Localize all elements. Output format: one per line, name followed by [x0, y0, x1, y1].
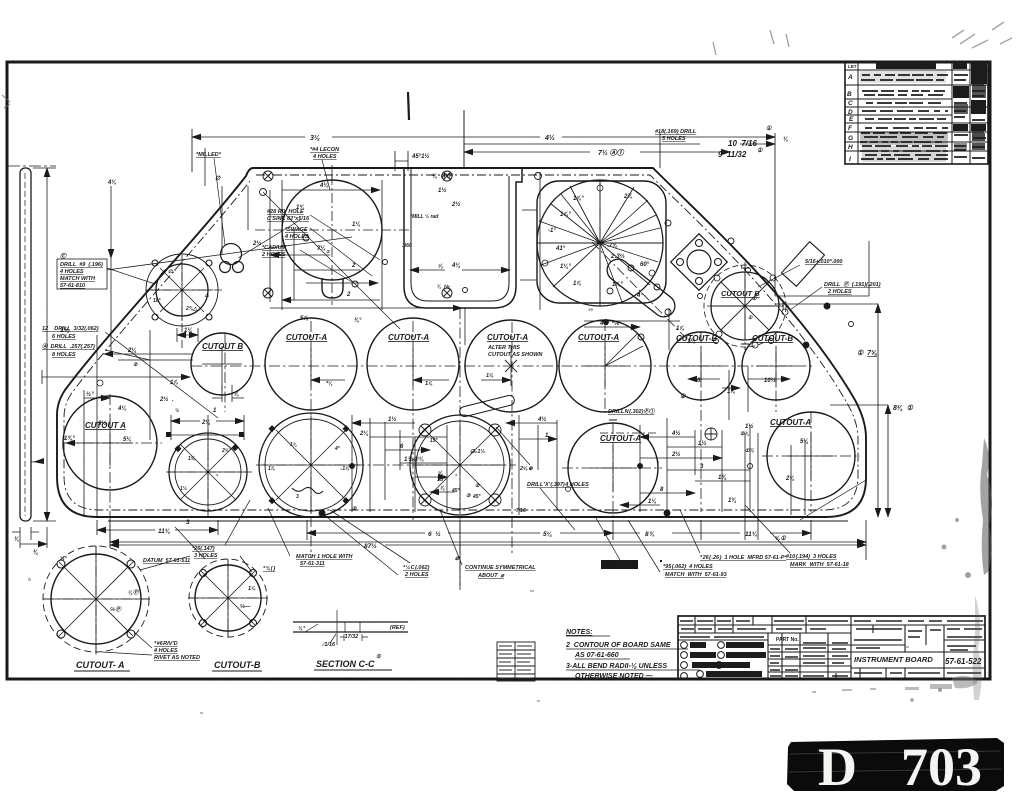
middle row: cutout A 2 — [367, 318, 459, 410]
middle row: cutout B 3 — [742, 332, 810, 400]
mid dim cluster between instrument circles 2 and 3 — [352, 415, 455, 512]
extra ring circles cutout B upper — [714, 275, 788, 348]
title block header scribbles — [680, 621, 983, 676]
U-shaped cutout — [404, 168, 522, 308]
centerline tick marks on circles — [51, 180, 855, 644]
slanted slot cutout — [603, 255, 680, 322]
middle row: cutout B 2 — [667, 332, 735, 400]
bottom row: instrument circle 1 — [169, 433, 247, 511]
dims inside right cutout A — [745, 433, 805, 540]
leader lines to below-panel labels — [175, 500, 790, 575]
dim below middle cutout B — [212, 385, 244, 402]
section C-C annotations — [298, 625, 405, 660]
cutout B circle with X spokes (upper right) — [704, 265, 786, 347]
upper-left leader labels — [196, 147, 340, 258]
small parts table bottom middle — [497, 642, 535, 681]
notes block — [565, 629, 700, 680]
detail circle labels bottom left — [60, 555, 256, 661]
left horizontal dim to diagonal — [42, 370, 190, 386]
dims small instrument upper left — [104, 148, 248, 360]
left edge view strip — [20, 168, 31, 521]
left side labels — [42, 252, 103, 358]
middle row: cutout A 1 — [265, 318, 357, 410]
scan smudges right border — [910, 438, 992, 702]
middle row: cutout B — [191, 333, 253, 395]
detail cutout B (bottom left) — [189, 559, 267, 637]
slot centerline — [592, 242, 692, 344]
panel outline (instrument board) — [57, 168, 866, 517]
keyhole datum cross marks — [263, 171, 452, 298]
small keyhole cutout — [220, 244, 244, 273]
small diamond cutout cluster — [671, 234, 728, 291]
right side vertical dims — [110, 304, 888, 560]
revision table top right — [845, 62, 988, 164]
keyhole cutout (large circle with slot) — [282, 180, 382, 298]
dims above instrument circle 1 — [169, 415, 244, 440]
left strip bottom ticks — [12, 527, 47, 548]
below-panel dimension chain — [97, 520, 866, 586]
bottom row: cutout A mid — [568, 423, 658, 513]
title block texts — [776, 637, 982, 666]
rivet hole dots — [260, 173, 854, 349]
U-shaped cutout inner line — [411, 168, 509, 301]
u channel centerline — [463, 110, 465, 168]
scan dots above D703 — [28, 578, 978, 714]
middle row: cutout A 4 — [559, 320, 651, 412]
top dimension lines — [8, 92, 775, 296]
extra fan circle spokes — [539, 185, 660, 302]
detail cutout A (bottom left) — [43, 546, 149, 652]
dim cluster right of instrument circle 3 — [496, 415, 575, 530]
strip side arrow — [33, 458, 44, 464]
title block stamps left section — [690, 642, 766, 677]
below-panel leader labels — [143, 546, 850, 579]
section C-C label — [74, 659, 392, 671]
dim cluster between bottom cutout circles (right) — [600, 418, 750, 512]
bottom edge double line — [108, 520, 848, 522]
middle row: cutout A 3 (altered) — [459, 320, 557, 418]
long centerlines dash-dot — [43, 308, 860, 655]
dims between middle row B circles — [680, 377, 776, 400]
circled cross marks on instrument circle 3 — [419, 424, 501, 506]
bottom row: cutout A big left — [63, 396, 157, 490]
title block bottom right — [678, 616, 985, 679]
scan marks top right corner — [2, 22, 1012, 108]
left inner vertical dims — [66, 330, 150, 517]
panel margin dash-dot line — [64, 175, 858, 510]
edge strip dimension line — [46, 168, 48, 521]
cutout labels on circles — [85, 289, 811, 443]
sheet border frame — [7, 62, 990, 679]
slanted shim plate on diagonal edge — [782, 242, 825, 287]
dims around big keyhole circle — [255, 165, 540, 345]
bottom row: instrument circle 3 — [410, 415, 510, 515]
revision table scribble rows — [860, 75, 986, 159]
fan circle (compass rose) top right — [537, 180, 666, 306]
wavy scribbles inside circle 19 — [292, 487, 323, 493]
section C-C drawing — [293, 610, 408, 645]
small instrument circle upper left with spokes — [146, 254, 218, 326]
D703 stamp black box — [787, 737, 1004, 797]
bottom row: cutout A right — [767, 412, 855, 500]
dims cutout B upper right — [669, 241, 869, 350]
bottom row: instrument circle 2 (large) — [259, 413, 363, 517]
dims around fan circle — [548, 194, 650, 315]
